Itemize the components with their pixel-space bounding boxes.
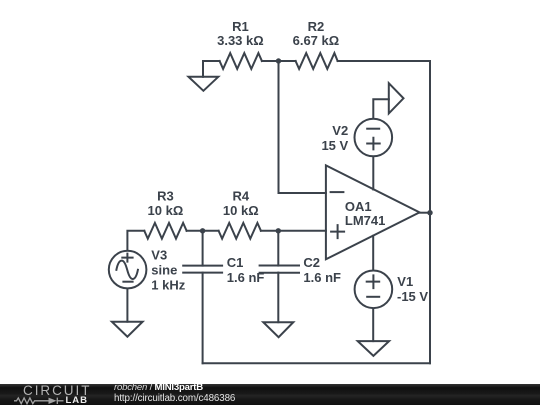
wire R2 to right rail <box>338 60 430 62</box>
svg-text:R3: R3 <box>157 188 174 203</box>
ground GND4 (below V1) <box>358 341 389 356</box>
wire op-amp V- pin to V1 <box>372 236 374 270</box>
svg-text:15 V: 15 V <box>321 138 348 153</box>
wire bottom rail up to C1 <box>202 273 204 364</box>
label R3 <box>148 188 184 218</box>
node B junction dot <box>200 228 205 233</box>
ground GND1 (top left) <box>189 61 219 91</box>
label C2 <box>303 255 341 285</box>
label R4 <box>223 188 259 218</box>
capacitor C2 <box>260 231 299 322</box>
footer bar <box>0 384 540 405</box>
voltage source V1 <box>355 271 393 309</box>
output node junction dot <box>427 210 432 215</box>
label C1 <box>227 255 265 285</box>
svg-text:V1: V1 <box>397 274 413 289</box>
wire op-amp output <box>420 212 431 214</box>
resistor R1 <box>220 53 262 69</box>
wire bottom rail <box>203 362 430 364</box>
label R2 <box>293 19 340 48</box>
wire GND1 to R1 <box>203 60 220 62</box>
svg-text:1.6 nF: 1.6 nF <box>227 270 265 285</box>
resistor R3 <box>144 223 186 239</box>
svg-text:10 kΩ: 10 kΩ <box>223 203 259 218</box>
voltage source V2 <box>355 119 393 157</box>
ground GND3 (below V3) <box>112 322 143 337</box>
wire node A down to inverting input <box>279 61 326 193</box>
op-amp OA1 <box>326 165 420 259</box>
wire right rail vertical <box>429 61 431 363</box>
wire node B to R4 <box>203 230 219 232</box>
svg-text:OA1: OA1 <box>345 199 372 214</box>
wire V2 to flag <box>373 99 389 118</box>
resistor R2 <box>296 53 338 69</box>
svg-text:3.33 kΩ: 3.33 kΩ <box>217 33 264 48</box>
svg-text:C2: C2 <box>303 255 320 270</box>
svg-text:R2: R2 <box>308 19 325 34</box>
svg-text:1 kHz: 1 kHz <box>151 278 185 293</box>
svg-text:V2: V2 <box>332 123 348 138</box>
label OA1 LM741 <box>345 199 385 228</box>
svg-text:1.6 nF: 1.6 nF <box>303 270 341 285</box>
wire node A to R2 <box>279 60 296 62</box>
credit line 2 <box>114 394 235 404</box>
svg-text:LM741: LM741 <box>345 213 385 228</box>
net flag (V2 top) <box>389 83 404 113</box>
label V2 <box>321 123 348 153</box>
node C junction dot <box>276 228 281 233</box>
svg-text:6.67 kΩ: 6.67 kΩ <box>293 33 340 48</box>
svg-text:-15 V: -15 V <box>397 289 428 304</box>
wire R3 to node B <box>187 230 203 232</box>
svg-text:R4: R4 <box>232 188 249 203</box>
svg-text:10 kΩ: 10 kΩ <box>148 203 184 218</box>
capacitor C1 <box>183 231 222 273</box>
svg-text:R1: R1 <box>232 19 249 34</box>
wire R4 to node C <box>261 230 278 232</box>
CircuitLab logo symbols <box>13 396 65 405</box>
svg-text:V3: V3 <box>151 248 167 263</box>
credit line 1 <box>114 383 203 393</box>
voltage source V3 (sine) <box>109 251 147 289</box>
svg-text:sine: sine <box>151 263 177 278</box>
wire V3 to R3 <box>127 231 144 251</box>
svg-text:C1: C1 <box>227 255 244 270</box>
wire V2 to op-amp V+ pin <box>372 157 374 190</box>
CircuitLab logo LAB <box>66 396 89 405</box>
CircuitLab logo CIRCUIT <box>23 384 91 398</box>
wire R1 to node A <box>262 60 279 62</box>
node A junction dot <box>276 58 281 63</box>
label R1 <box>217 19 264 48</box>
ground GND2 (below C2) <box>263 322 293 337</box>
wire V1 to GND4 <box>372 309 374 341</box>
resistor R4 <box>219 223 261 239</box>
label V1 <box>397 274 428 304</box>
wire V3 to GND3 <box>126 289 128 322</box>
wire node C to non-inverting input <box>278 230 326 232</box>
label V3 <box>151 248 185 293</box>
